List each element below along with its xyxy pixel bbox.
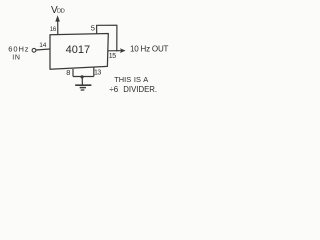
wire input to pin14 (36, 49, 50, 50)
VDD arrow (55, 15, 60, 21)
svg-text:10 Hz OUT: 10 Hz OUT (130, 44, 169, 53)
ground (75, 84, 91, 86)
wire to ground (81, 77, 83, 85)
svg-text:DD: DD (57, 9, 65, 15)
svg-text:14: 14 (39, 42, 47, 49)
wire pin5 loop over to pin15 (97, 25, 117, 50)
wire pin8 stub (72, 69, 74, 77)
svg-text:8: 8 (66, 68, 70, 77)
svg-text:60Hz: 60Hz (8, 45, 29, 54)
svg-text:15: 15 (109, 53, 116, 60)
wire pin8-pin13 connector (73, 76, 94, 78)
svg-text:÷6: ÷6 (109, 85, 118, 94)
IC U1 4017 body (50, 34, 108, 70)
node 60Hz input terminal (32, 48, 36, 52)
output arrow (120, 48, 126, 53)
junction pin15/pin5 (116, 50, 118, 52)
svg-text:13: 13 (94, 70, 101, 77)
junction dot ground node (81, 75, 84, 78)
wire pin16 to VDD (57, 19, 59, 35)
svg-text:THIS IS A: THIS IS A (114, 75, 148, 84)
wire pin15 out (108, 50, 121, 52)
svg-text:5: 5 (91, 23, 95, 32)
svg-text:4017: 4017 (66, 44, 90, 56)
svg-text:IN: IN (12, 55, 21, 62)
svg-text:DIVIDER.: DIVIDER. (123, 85, 157, 94)
svg-text:16: 16 (50, 27, 57, 33)
wire pin13 stub (93, 67, 95, 76)
